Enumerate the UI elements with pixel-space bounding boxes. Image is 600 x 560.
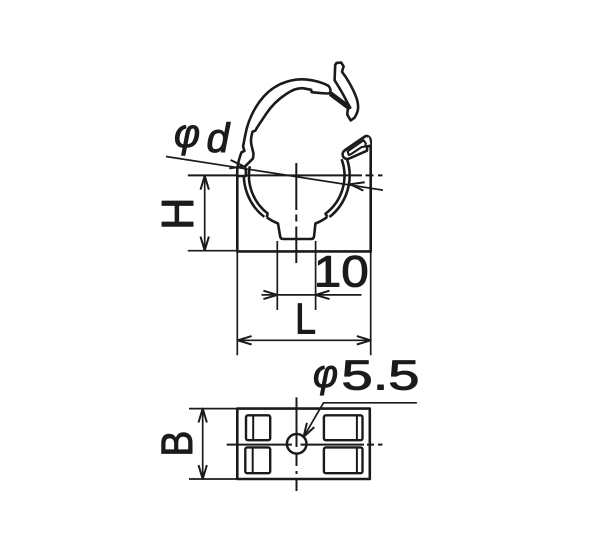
bottom view vertical centerline — [296, 397, 298, 491]
clamp bore inner arc right segment — [326, 159, 345, 217]
B dimension line — [202, 409, 204, 479]
barb wedge — [330, 94, 348, 108]
svg-text:φ5.5: φ5.5 — [313, 352, 420, 399]
phi-d arrowhead left — [229, 160, 243, 168]
saddle relief arcs and bottom channel — [267, 217, 328, 239]
svg-text:10: 10 — [314, 248, 369, 297]
vertical centerline (front view) — [295, 163, 297, 263]
clamp wall outer arc left — [244, 167, 264, 217]
bottom view left slots — [246, 415, 270, 440]
body front view outline — [236, 137, 372, 252]
L dimension line — [237, 339, 370, 341]
phi-d leader line — [166, 157, 383, 191]
svg-text:φd: φd — [174, 112, 231, 161]
latch slot — [348, 140, 366, 155]
B dimension extension lines — [189, 409, 237, 479]
H bottom extension line — [188, 250, 238, 252]
svg-text:L: L — [295, 296, 316, 344]
bottom view right slots — [324, 415, 363, 440]
L extension lines below body — [237, 251, 370, 355]
svg-text:H: H — [152, 198, 203, 231]
10 dimension line — [262, 294, 362, 296]
bottom view horizontal centerline — [227, 444, 383, 446]
horizontal centerline + H extension (front view) — [188, 174, 383, 176]
latch block (right, on body edge) — [343, 136, 371, 159]
arm hook beak and barb blade — [335, 63, 359, 121]
center hole — [287, 434, 307, 454]
10 arrowheads — [263, 291, 329, 299]
phi-d arrowhead right — [350, 182, 364, 190]
clamp bore inner arc left segment — [249, 166, 268, 217]
svg-text:B: B — [153, 431, 202, 457]
clamp wall outer arc right — [330, 160, 350, 217]
L arrowheads — [238, 336, 371, 344]
flexible arm band (left, sweeping over the top) — [237, 79, 330, 176]
phi 5.5 leader with arrow — [304, 403, 417, 437]
H dimension line with arrows — [204, 175, 206, 250]
10 dimension extension lines — [277, 241, 315, 310]
bottom view outer rectangle — [237, 409, 369, 479]
